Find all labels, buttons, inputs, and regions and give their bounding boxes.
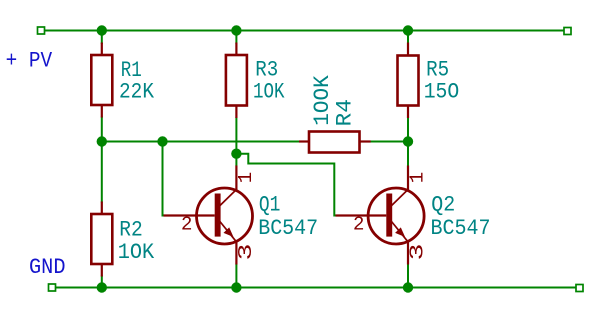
junction middle Q1 base tap xyxy=(157,136,167,146)
svg-text:3: 3 xyxy=(407,244,429,261)
svg-text:R2: R2 xyxy=(119,217,143,242)
svg-text:BC547: BC547 xyxy=(431,216,491,241)
junction top R5 xyxy=(403,25,413,35)
svg-text:22K: 22K xyxy=(119,79,155,104)
resistor R1 xyxy=(91,43,112,118)
wire Q2 collector xyxy=(407,142,409,167)
junction Q1 collector node xyxy=(231,149,241,159)
svg-text:1: 1 xyxy=(406,172,428,183)
wire R5 bottom xyxy=(407,117,409,142)
svg-text:R4: R4 xyxy=(333,99,358,127)
wire Q1 base from middle rail xyxy=(163,142,165,216)
wire R5 top xyxy=(407,31,409,45)
junction middle R1/R2 xyxy=(97,136,107,146)
wire bottom rail xyxy=(56,287,577,289)
svg-text:GND: GND xyxy=(29,255,66,280)
svg-text:3: 3 xyxy=(235,244,257,261)
resistor R5 xyxy=(398,43,419,119)
svg-text:1: 1 xyxy=(235,172,257,183)
junction top R3 xyxy=(231,25,241,35)
resistor R2 xyxy=(91,202,112,277)
wire Q1 collector to Q2 base xyxy=(236,154,335,216)
wire top rail xyxy=(44,30,564,32)
wire R3 bottom to Q1 collector xyxy=(235,117,237,166)
wire R2 bottom xyxy=(101,276,103,288)
junction top R1 xyxy=(97,25,107,35)
wire middle rail right xyxy=(371,141,409,143)
wire Q2 emitter xyxy=(407,264,409,288)
wire R3 top xyxy=(235,31,237,45)
wire R1 bottom to R2 top xyxy=(101,117,103,203)
wire middle rail left xyxy=(102,141,299,143)
svg-text:BC547: BC547 xyxy=(258,216,318,241)
transistor Q2 xyxy=(336,166,425,265)
svg-text:1OOK: 1OOK xyxy=(310,75,335,126)
resistor R3 xyxy=(226,43,247,119)
wire R1 top xyxy=(101,31,103,45)
unconnected terminal bottom-left xyxy=(49,284,56,291)
svg-text:15O: 15O xyxy=(424,79,460,104)
svg-text:2: 2 xyxy=(181,214,192,236)
wire Q1 emitter xyxy=(235,264,237,288)
resistor R4 xyxy=(299,132,371,153)
junction bottom R2 xyxy=(97,282,107,292)
unconnected terminal top-left xyxy=(38,27,45,34)
unconnected terminal bottom-right xyxy=(576,285,583,292)
unconnected terminal top-right xyxy=(564,28,571,35)
svg-text:Q1: Q1 xyxy=(259,193,281,218)
junction bottom Q2 emitter xyxy=(403,282,413,292)
svg-text:1OK: 1OK xyxy=(253,79,285,104)
transistor Q1 xyxy=(164,166,253,265)
junction middle R4/R5/Q2 collector xyxy=(403,136,413,146)
svg-text:+ PV: + PV xyxy=(6,49,53,74)
svg-text:2: 2 xyxy=(353,214,364,236)
junction bottom Q1 emitter xyxy=(231,282,241,292)
svg-text:Q2: Q2 xyxy=(431,193,455,218)
svg-text:1OK: 1OK xyxy=(118,240,155,265)
